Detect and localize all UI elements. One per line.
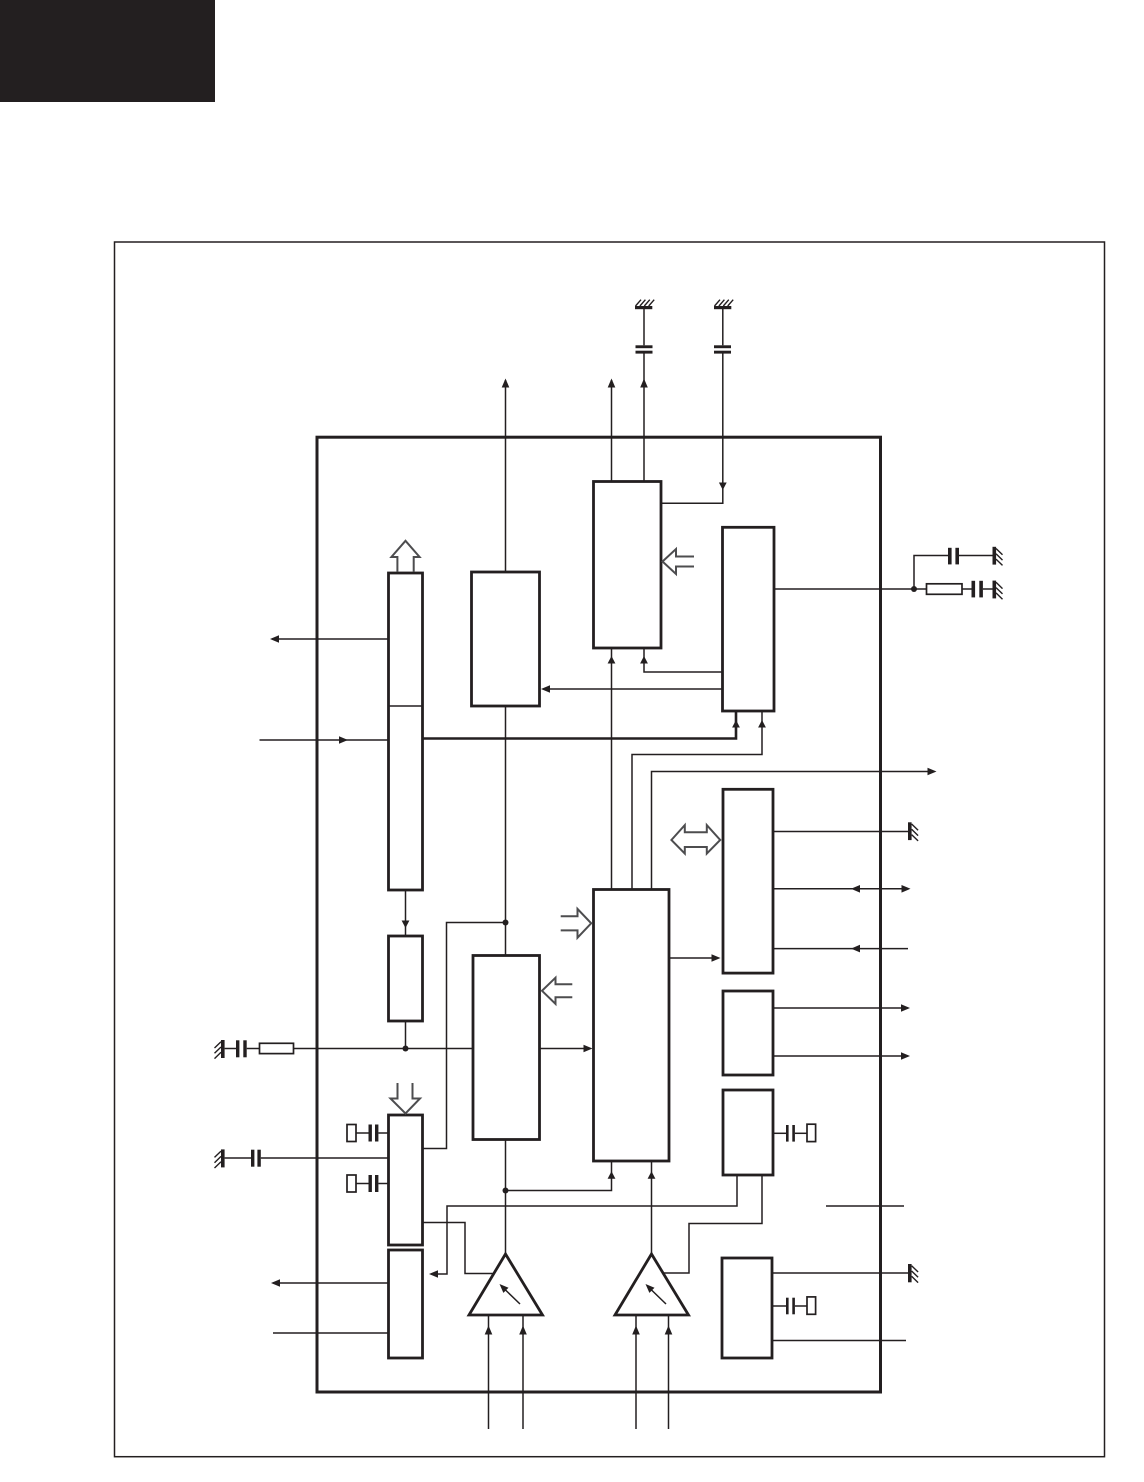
wire: block B bottom to block F top	[402, 890, 410, 936]
wire: op-amp N1 input pin 1	[485, 1316, 493, 1429]
fat arrow left (block D)	[663, 549, 695, 574]
ground G6	[215, 1149, 225, 1168]
wire: block J to capacitor C9	[773, 1132, 786, 1134]
wire: block K output pin 2	[773, 1052, 910, 1060]
fat arrow up (block B)	[391, 541, 419, 572]
ground G4	[993, 581, 1003, 600]
block L upper (bottom left)	[389, 1115, 423, 1245]
ground G7	[908, 822, 918, 841]
block H (lower middle)	[473, 956, 540, 1140]
resonator X2	[347, 1175, 369, 1192]
resistor R1	[927, 584, 963, 595]
ground G2	[714, 300, 733, 310]
node: junction dot RC	[911, 586, 917, 592]
outer border frame	[115, 242, 1105, 1457]
wire: block E left edge arrow into block C right edge	[541, 685, 723, 693]
ground G1	[635, 300, 654, 310]
op-amp N2 gain arrow	[646, 1284, 667, 1304]
wire: node up to capacitor C3	[914, 556, 948, 590]
block E (right top)	[723, 527, 775, 711]
wire: node to resistor R1	[914, 588, 927, 590]
wire: block E left edge to block D bottom right	[640, 648, 722, 672]
capacitor C6	[225, 1150, 389, 1167]
wire: block I pin to ground G7	[773, 831, 908, 833]
wire: output arrow from block B upper left	[270, 635, 389, 643]
block I (right column 1)	[723, 789, 773, 973]
node: junction dot op-amp 1	[503, 1188, 509, 1194]
wire: block I bidirectional pin	[773, 885, 911, 893]
title block (black corner)	[0, 0, 215, 102]
resonator X4	[807, 1297, 816, 1314]
wire: block M lower pin stub	[772, 1340, 906, 1342]
node: junction dot input 1	[403, 1046, 409, 1052]
wire: pin line from block D top to capacitor C1	[640, 354, 648, 482]
capacitor C10	[786, 1298, 807, 1315]
block L lower (bottom left)	[389, 1250, 423, 1358]
resonator X1	[347, 1125, 369, 1142]
wire: block C bottom down to block H top	[505, 706, 507, 956]
op-amp N1	[469, 1254, 543, 1315]
wire: input line into block B lower left	[260, 736, 389, 744]
wire: op-amp N2 output to block J bottom	[664, 1175, 763, 1273]
node: junction dot mid	[503, 920, 509, 926]
wire: branch to block L right edge	[423, 923, 506, 1149]
wire: block J bottom long feedback line into block L	[429, 1175, 737, 1278]
wire: block H bottom to op-amp N1 apex	[505, 1140, 507, 1255]
capacitor C4	[972, 581, 993, 598]
fat arrow down (block L)	[391, 1083, 421, 1114]
wire: block M pin to ground G8	[772, 1272, 908, 1274]
wire: block G right edge arrow into block I left	[669, 954, 721, 962]
wire: block E right edge to external RC node	[774, 588, 914, 590]
IC boundary box U1	[317, 437, 881, 1392]
capacitor C5	[225, 1040, 260, 1057]
resonator X3	[807, 1124, 816, 1141]
block F (small, below B)	[389, 936, 423, 1021]
wire: block G top to block D bottom left	[608, 648, 616, 890]
wire: pin line from block D top, left	[608, 379, 616, 482]
wire: block G top to block E bottom right	[632, 711, 766, 890]
wire: input line into block L left	[273, 1332, 389, 1334]
wire: pin line from block A top to top arrow	[502, 379, 510, 573]
wire: branch into block G bottom left	[506, 1161, 616, 1191]
capacitor C2	[714, 309, 731, 354]
wire: block F bottom to input node	[405, 1021, 407, 1049]
block J (right column 3)	[723, 1090, 773, 1175]
fat arrow right (block G)	[561, 909, 592, 938]
wire: op-amp N1 input pin 2	[519, 1316, 527, 1429]
wire: input line 1 into block H left edge	[294, 1048, 474, 1050]
wire: block I input pin	[773, 945, 908, 953]
wire: block M to capacitor C10	[772, 1305, 786, 1307]
capacitor C3	[948, 548, 993, 565]
ground G3	[993, 547, 1003, 566]
fat arrow left (block H)	[542, 978, 572, 1004]
op-amp N2	[615, 1254, 689, 1315]
fat arrow double (block I)	[671, 825, 720, 854]
capacitor C7	[369, 1125, 389, 1142]
ground G5	[215, 1040, 225, 1059]
wire: op-amp N2 input pin 2	[665, 1316, 673, 1429]
capacitor C9	[786, 1125, 807, 1142]
wire: output from block G top exiting right	[652, 768, 937, 890]
op-amp N1 gain arrow	[500, 1284, 521, 1304]
ground G8	[908, 1264, 918, 1283]
block K (right column 2)	[723, 991, 773, 1075]
capacitor C1	[636, 309, 653, 354]
capacitor C8	[369, 1175, 389, 1192]
block C (middle upper)	[472, 572, 540, 706]
wire: resistor R1 to capacitor C4	[962, 588, 972, 590]
block B (tall left)	[389, 573, 423, 890]
wire: op-amp N2 input pin 1	[632, 1316, 640, 1429]
block D (center right top)	[594, 482, 662, 649]
block G (central big)	[594, 890, 670, 1162]
wire: block H right edge arrow into block G left edge	[540, 1045, 593, 1053]
wire: block L right to op-amp N1 left edge	[423, 1223, 493, 1274]
wire: thick bus block B right to block E bottom	[423, 711, 740, 739]
wire: capacitor C2 drop into block D right edge	[661, 354, 727, 504]
wire: pin stub crossing right edge	[826, 1205, 904, 1207]
wire: op-amp N2 apex into block G bottom right	[648, 1161, 656, 1254]
resistor R2	[260, 1043, 294, 1053]
wire: block K output pin 1	[773, 1004, 910, 1012]
wire: output arrow from block L left	[271, 1279, 389, 1287]
block M (right column bottom)	[722, 1258, 772, 1358]
